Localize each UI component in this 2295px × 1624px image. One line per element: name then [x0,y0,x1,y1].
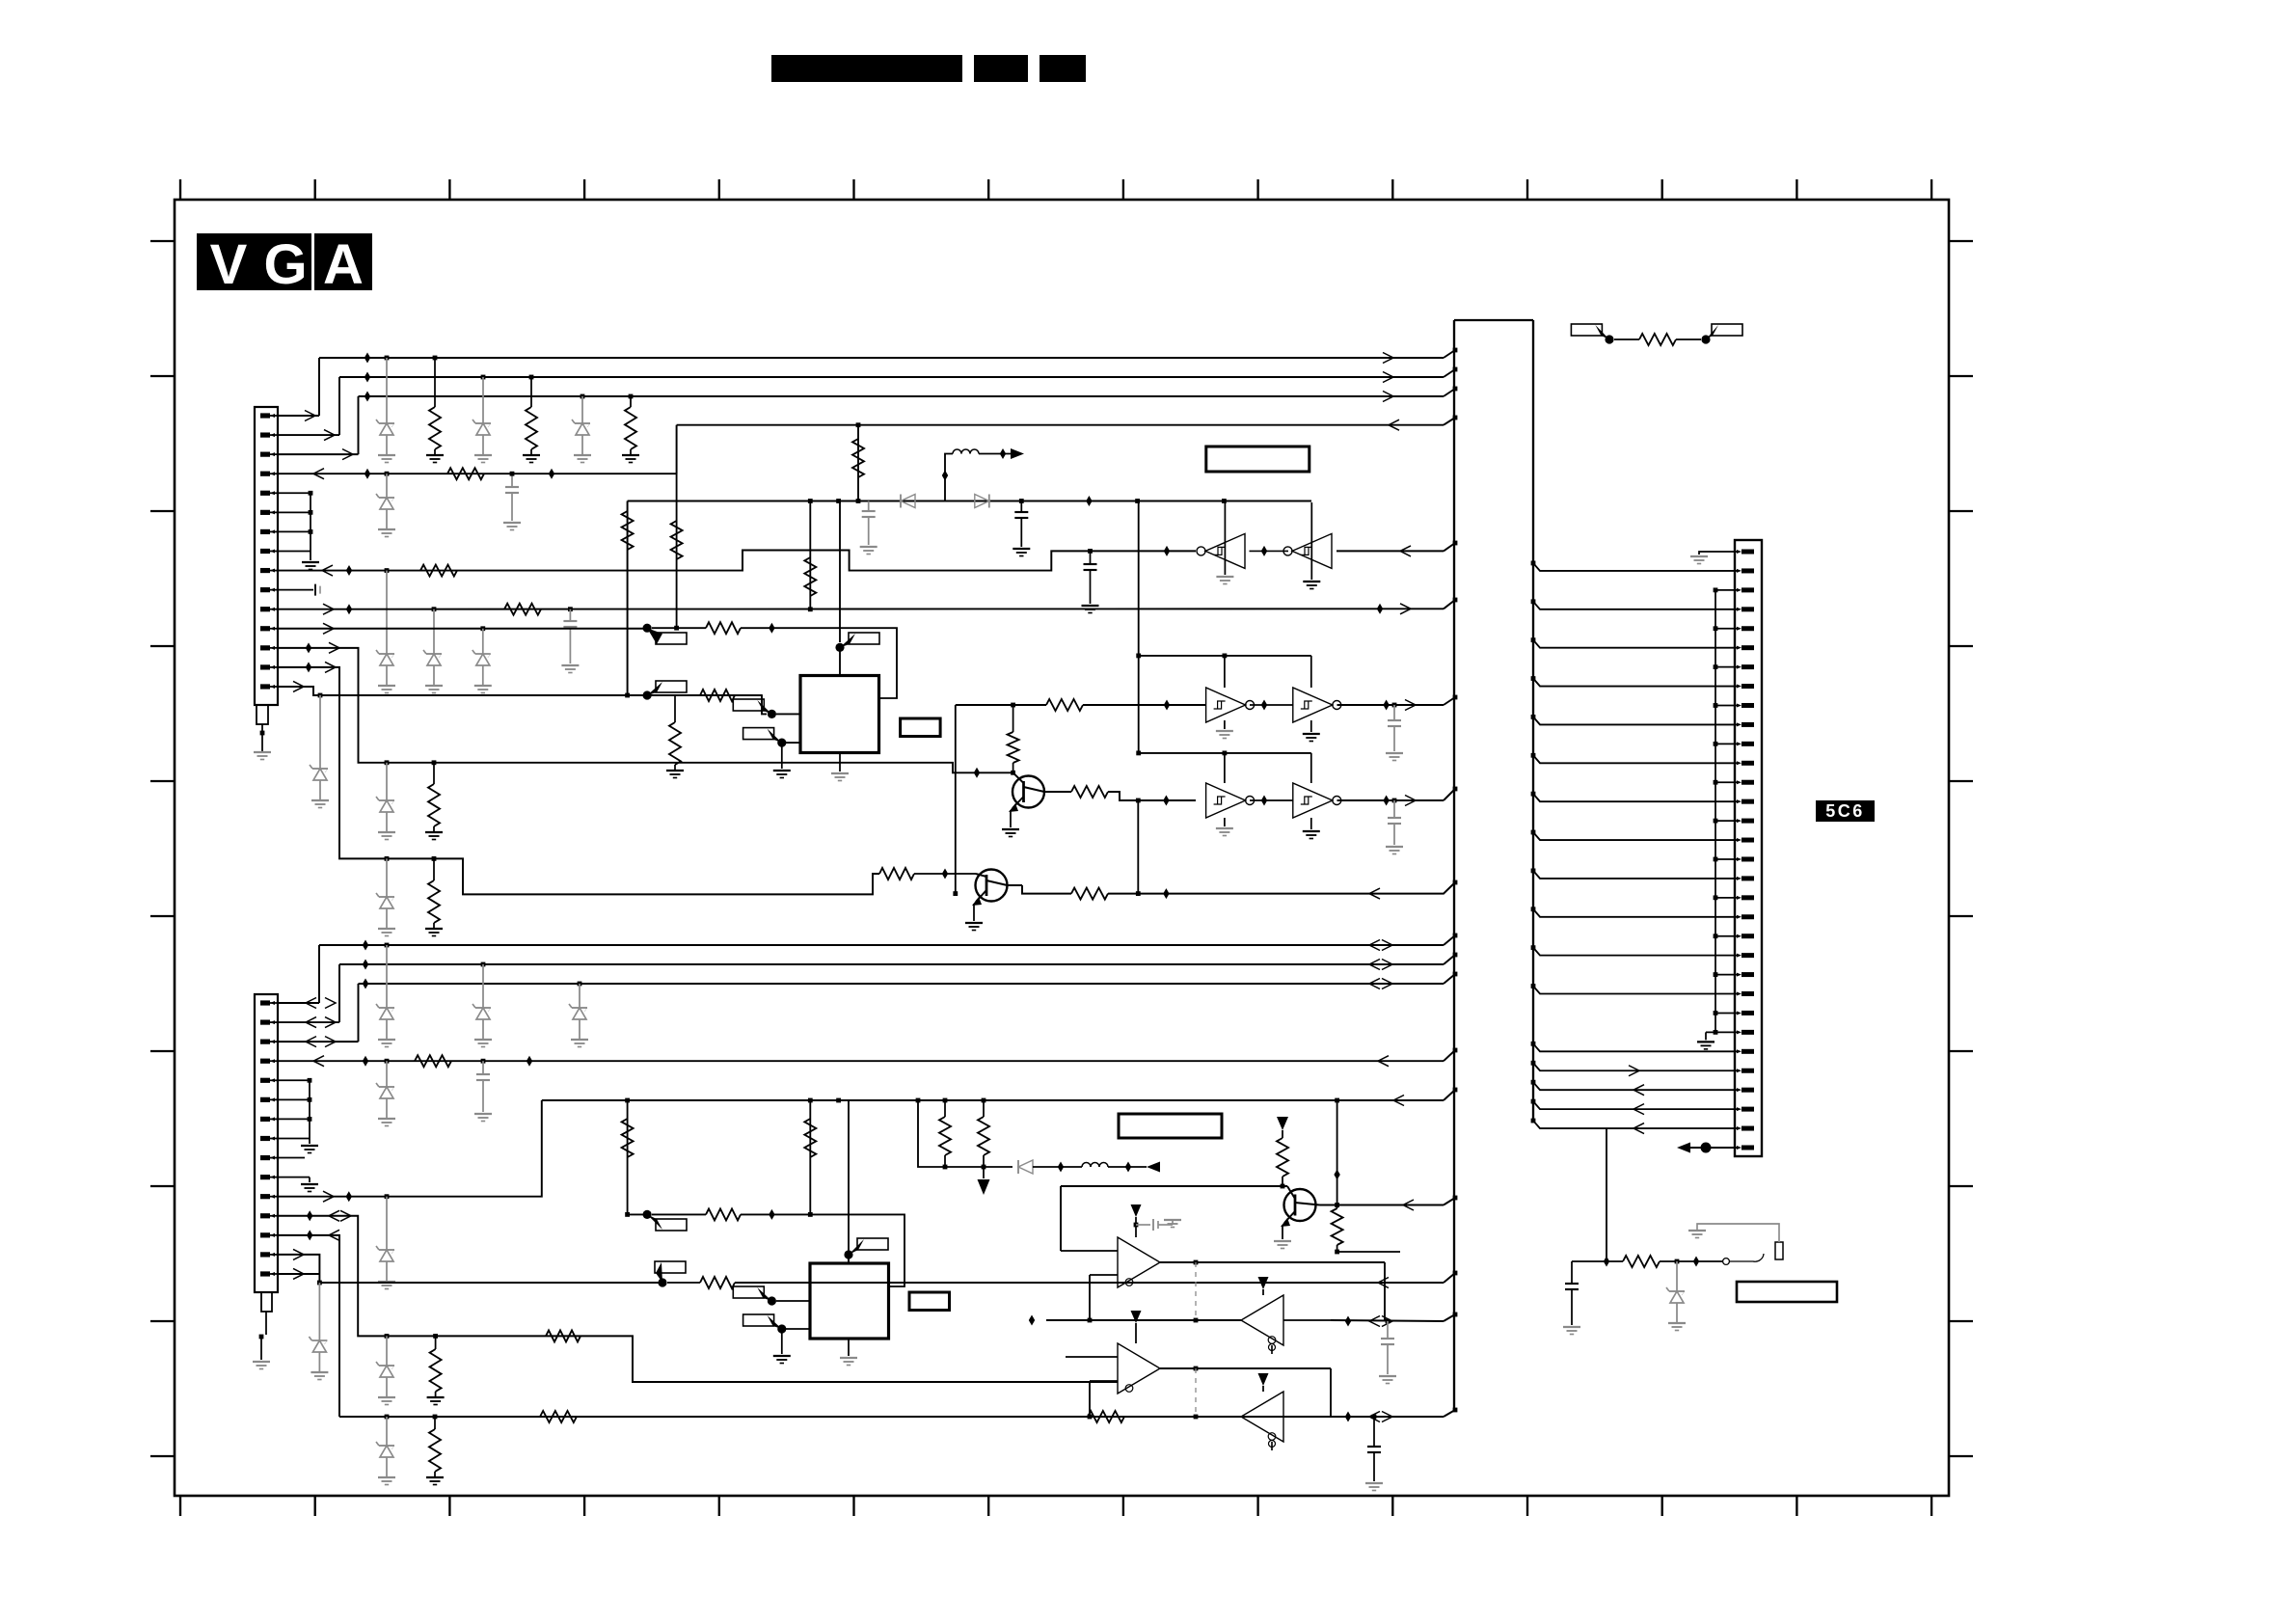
wire pin9 id0 [278,551,1196,571]
resistor R37 [1623,1256,1660,1267]
wire u4a in2 [1090,1274,1118,1276]
wire U1 out to bus [1250,550,1289,552]
wire connector gnd bus [1714,590,1716,1033]
inductor L1 [953,449,961,454]
resistor R27 [540,1411,577,1422]
wire q1 base [966,771,1013,773]
resistor R15 [674,695,676,722]
jumper JP4 [777,739,786,747]
wire U1F pwr [1310,818,1312,829]
power U4C [1131,1311,1142,1323]
wire u4a in1 [1061,1250,1118,1252]
wire jack drop [1572,1128,1606,1261]
amplifier U4D [1241,1392,1283,1442]
resistor R30 [706,1208,741,1220]
amplifier U4B [1241,1295,1283,1345]
wire B video rail [359,395,1444,397]
wire pin1 riser [278,415,319,417]
zener D2 [482,377,484,423]
zener D5 [386,571,388,654]
inverter U1B [1292,533,1332,568]
wire loop3 [1139,752,1311,754]
resistor R38 [700,1277,735,1288]
wire U1C pwr [1224,720,1226,729]
wire L pin10 [278,1177,310,1178]
resistor R5 [420,565,457,577]
wire U1D pwr [1310,720,1312,732]
ground (Q1) [1002,828,1019,830]
wire q-div [955,705,957,894]
wire scl to ic [652,627,706,629]
resistor R29 [434,1417,436,1429]
ground (L pin10) [301,1183,318,1185]
power U4D [1258,1373,1269,1386]
resistor R32 [944,1100,946,1117]
wire u4d bubble [1271,1442,1273,1450]
wire J2 pin1 gnd [1699,552,1737,555]
resistor R21 [1639,334,1676,345]
arrow [305,411,315,421]
zener D15 [579,984,580,1008]
wire q1 collector [1044,791,1071,793]
resistor R7 drop [676,474,678,628]
zener D1 [386,358,388,423]
amplifier U4A [1118,1237,1160,1287]
wire L 1469 rail [339,1416,1444,1418]
capacitor C4 [1020,501,1022,513]
wire ic gnd [839,753,841,772]
redacted title bar 2 [974,55,1028,82]
wire pin15 [278,687,320,695]
headphone jack J4 [1723,1259,1730,1265]
wire L rail3 [359,983,1444,985]
jumper JP2 [643,690,652,699]
label box C [1737,1282,1837,1302]
ground (IC U2) [831,772,849,774]
wire inductor branch [945,454,953,501]
border frame [175,200,1949,1496]
resistor R12 [433,763,435,784]
wire q3 collector [1320,1204,1444,1206]
IC U3 [810,1263,889,1339]
zener D17 [386,1197,388,1250]
cable bus [1454,319,1533,321]
wire L rail1 [319,944,1444,946]
transistor Q2 [976,870,1008,902]
inverter U1E [1206,783,1246,818]
ground (pins5-8) [302,561,319,563]
resistor R1 [434,358,436,407]
connector J1 upper VGA [255,407,278,705]
wire L ind2 [1108,1166,1147,1168]
capacitor C8 [482,1061,484,1074]
inverter U1D [1293,688,1333,722]
wire L pin9 [278,1157,305,1159]
resistor R4 [447,468,484,479]
resistor R33 [983,1100,985,1117]
wire pin14 [278,667,879,894]
wire q2 collector [1008,884,1023,886]
wire u4c in2 [1090,1380,1118,1382]
wire q3 base [1061,1185,1287,1187]
wire amp out rail1 [1331,1320,1444,1321]
ground (IC U3) [840,1357,857,1359]
zener D22 [1676,1261,1678,1291]
ground (jp11) [773,1355,791,1357]
resistor R28 [1088,1411,1124,1422]
resistor R18 [1071,786,1108,798]
jumper JP7 [1701,335,1710,343]
zener D12 [319,695,321,769]
capacitor C2 [1090,551,1092,564]
wire gnd bus pins5-8 [278,492,310,494]
capacitor C5 [569,609,571,621]
wire jack row [1606,1260,1623,1262]
wire loop top [628,501,1311,502]
arrow [324,430,335,441]
zener D8 [433,609,435,654]
wire L ind [1033,1166,1082,1168]
capacitor C6 [1393,705,1395,720]
zener D18 [386,1336,388,1366]
redacted title bar 3 [1039,55,1086,82]
ground (J1 shell) [254,751,271,753]
jumper JP10 [768,1296,776,1305]
resistor R6 [622,511,634,550]
jumper JP11 [777,1324,786,1333]
resistor R25 [546,1330,580,1341]
wire jp10 [776,1300,810,1302]
wire L pin1 riser [278,1002,319,1004]
wire id bus [320,694,762,696]
ground (J3 shell) [253,1361,270,1363]
wire pin11 sda [278,608,1444,609]
capacitor C11 [1373,1417,1375,1447]
connector J2 board [1735,540,1762,1156]
wire inv2 out [1337,704,1444,706]
diode D7 [975,495,989,508]
wire L pin3 riser [278,1041,359,1042]
ground (J2 top) [1690,555,1708,557]
wire L pin4 [278,1060,1444,1062]
jumper JP8 [643,1210,652,1219]
wire L scl [628,1213,648,1215]
wire inv3 mid [1250,799,1293,801]
wire pin4 hsync [278,473,677,474]
wires J2 signals [1533,563,1737,571]
ground (J2 bottom) [1697,1041,1714,1042]
crystal X2 [909,1292,950,1311]
wire L pin2 riser [278,1021,339,1023]
resistor R13 [433,858,435,880]
wire L rail2 [339,963,1444,965]
wire jr [1614,338,1639,340]
ground (Q2) [965,922,983,924]
svg-text:A: A [323,233,364,296]
wire U1E pwr [1224,818,1226,826]
wire scl loop [741,628,897,698]
wire inv2 mid [1250,704,1293,706]
ground (jp4) [773,770,791,771]
resistor R34 [1277,1138,1288,1177]
zener D14 [482,964,484,1008]
resistor R24 [809,1100,811,1214]
power U4A [1131,1204,1142,1217]
wire ic top [839,651,841,676]
jumper JP9 [844,1250,852,1259]
svg-text:V: V [210,233,248,296]
arrow supply [1011,448,1024,459]
inductor L2 [1082,1163,1091,1168]
resistor R20 [1071,888,1108,900]
wire L pin13 [278,1235,339,1417]
ground (jack) [1688,1230,1706,1232]
wire jp4 [786,742,800,744]
wire L pin11 [278,1100,542,1197]
wire ic2 gnd [848,1339,850,1356]
wire q3 up [1336,1100,1338,1205]
wire L gnd bus [278,1079,310,1081]
wire q1q2 link [1137,800,1139,894]
wire pin10 stub [278,589,313,591]
zener D11 [386,858,388,897]
amplifier U4C [1118,1343,1160,1394]
resistor R3 [630,396,632,407]
resistor R10 [809,501,811,609]
diode D6 [901,495,915,508]
wire q2 base [879,868,914,880]
zener D16 [386,1061,388,1087]
wire ic2 top [848,1100,850,1263]
label box B [1119,1114,1222,1138]
wire u4b bubble [1271,1345,1273,1354]
wire L pin15 [278,1273,319,1275]
power arrow q3 [1277,1117,1288,1130]
resistor R8 [857,425,859,501]
wire u4a out [1160,1261,1385,1263]
capacitor C9 [1136,1224,1150,1226]
zener D3 [581,396,583,423]
jumper JP12 [658,1278,666,1286]
jumper JP6 [1605,335,1613,343]
resistor R35 [1336,1205,1338,1209]
resistor R23 [627,1100,629,1214]
wire L 1330 rail [319,1282,662,1284]
zener D19 [318,1283,320,1340]
dashed link2 [1195,1368,1197,1417]
connector J3 shell tab [261,1292,272,1312]
redacted title bar 1 [771,55,962,82]
wire inv3 out [1337,799,1444,801]
zener D9 [482,629,484,654]
resistor R14 [700,690,735,701]
capacitor C10 [1387,1321,1389,1339]
jumper JP5 [835,643,844,652]
inverter U1F [1293,783,1333,818]
capacitor C7 [1393,800,1395,818]
ground (Q3) [1274,1240,1291,1242]
ground (L pins5-8) [301,1145,318,1147]
wire pin13 [278,648,966,772]
IC U2 [800,676,879,753]
wire R video rail [319,357,1444,359]
zener D13 [386,945,388,1008]
transistor Q1 [1012,776,1044,808]
crystal X1 [901,718,941,737]
wire pin12 scl [278,628,647,630]
zener D20 [386,1417,388,1446]
wire collector feed [956,704,1046,706]
connector J1 shell tab [256,705,268,724]
diode D21 [1018,1160,1033,1174]
wire L pin12 [278,1216,1118,1382]
dashed link1 [1195,1262,1197,1320]
wire jp11 [786,1328,810,1330]
capacitor C3 [868,501,870,512]
capacitor C1 [511,474,513,487]
wire U1B pwr [1310,502,1312,580]
zener D4 [386,474,388,498]
wire pin3 riser [278,453,359,455]
VGA label block [197,233,311,290]
label 5C6 [1816,800,1875,822]
resistor R9 [504,604,541,615]
wire L scl loop [741,1214,904,1286]
wire u4c in1 [1066,1356,1118,1358]
inverter U1A [1205,533,1245,568]
jumper JP3 [768,710,776,718]
svg-text:5C6: 5C6 [1825,801,1865,821]
svg-text:G: G [263,233,307,296]
wire u4b io [1046,1319,1241,1321]
connector J3 lower VGA [255,994,278,1292]
wire U1A pwr [1224,502,1226,575]
wire L pin14 [278,1255,319,1283]
resistor R22 [415,1055,451,1067]
power U4B [1258,1277,1269,1289]
resistor R17 [1012,705,1014,732]
inverter U1C [1206,688,1246,722]
transistor Q3 [1284,1189,1316,1221]
wire L supply branch [918,1100,1012,1167]
wire loop left drop [627,501,629,696]
resistor R11 [706,622,741,634]
wire G video rail [339,376,1444,378]
resistor R2 [530,377,532,407]
power arrow dn [983,1167,985,1178]
resistor R26 [435,1336,437,1349]
wire u4c out [1160,1367,1331,1369]
arrow [342,449,353,460]
wire pin2 riser [278,434,339,436]
wire L 1141 rail [542,1099,1444,1101]
jumper JP1 [643,624,652,633]
zener D10 [386,763,388,800]
resistor R16 [1046,699,1083,711]
label box A [1206,447,1309,472]
wire loop2 [1138,501,1140,753]
wire to ic pin [735,695,767,714]
capacitor C12 [1571,1261,1573,1284]
wire J2 pin32 [1690,1147,1737,1149]
